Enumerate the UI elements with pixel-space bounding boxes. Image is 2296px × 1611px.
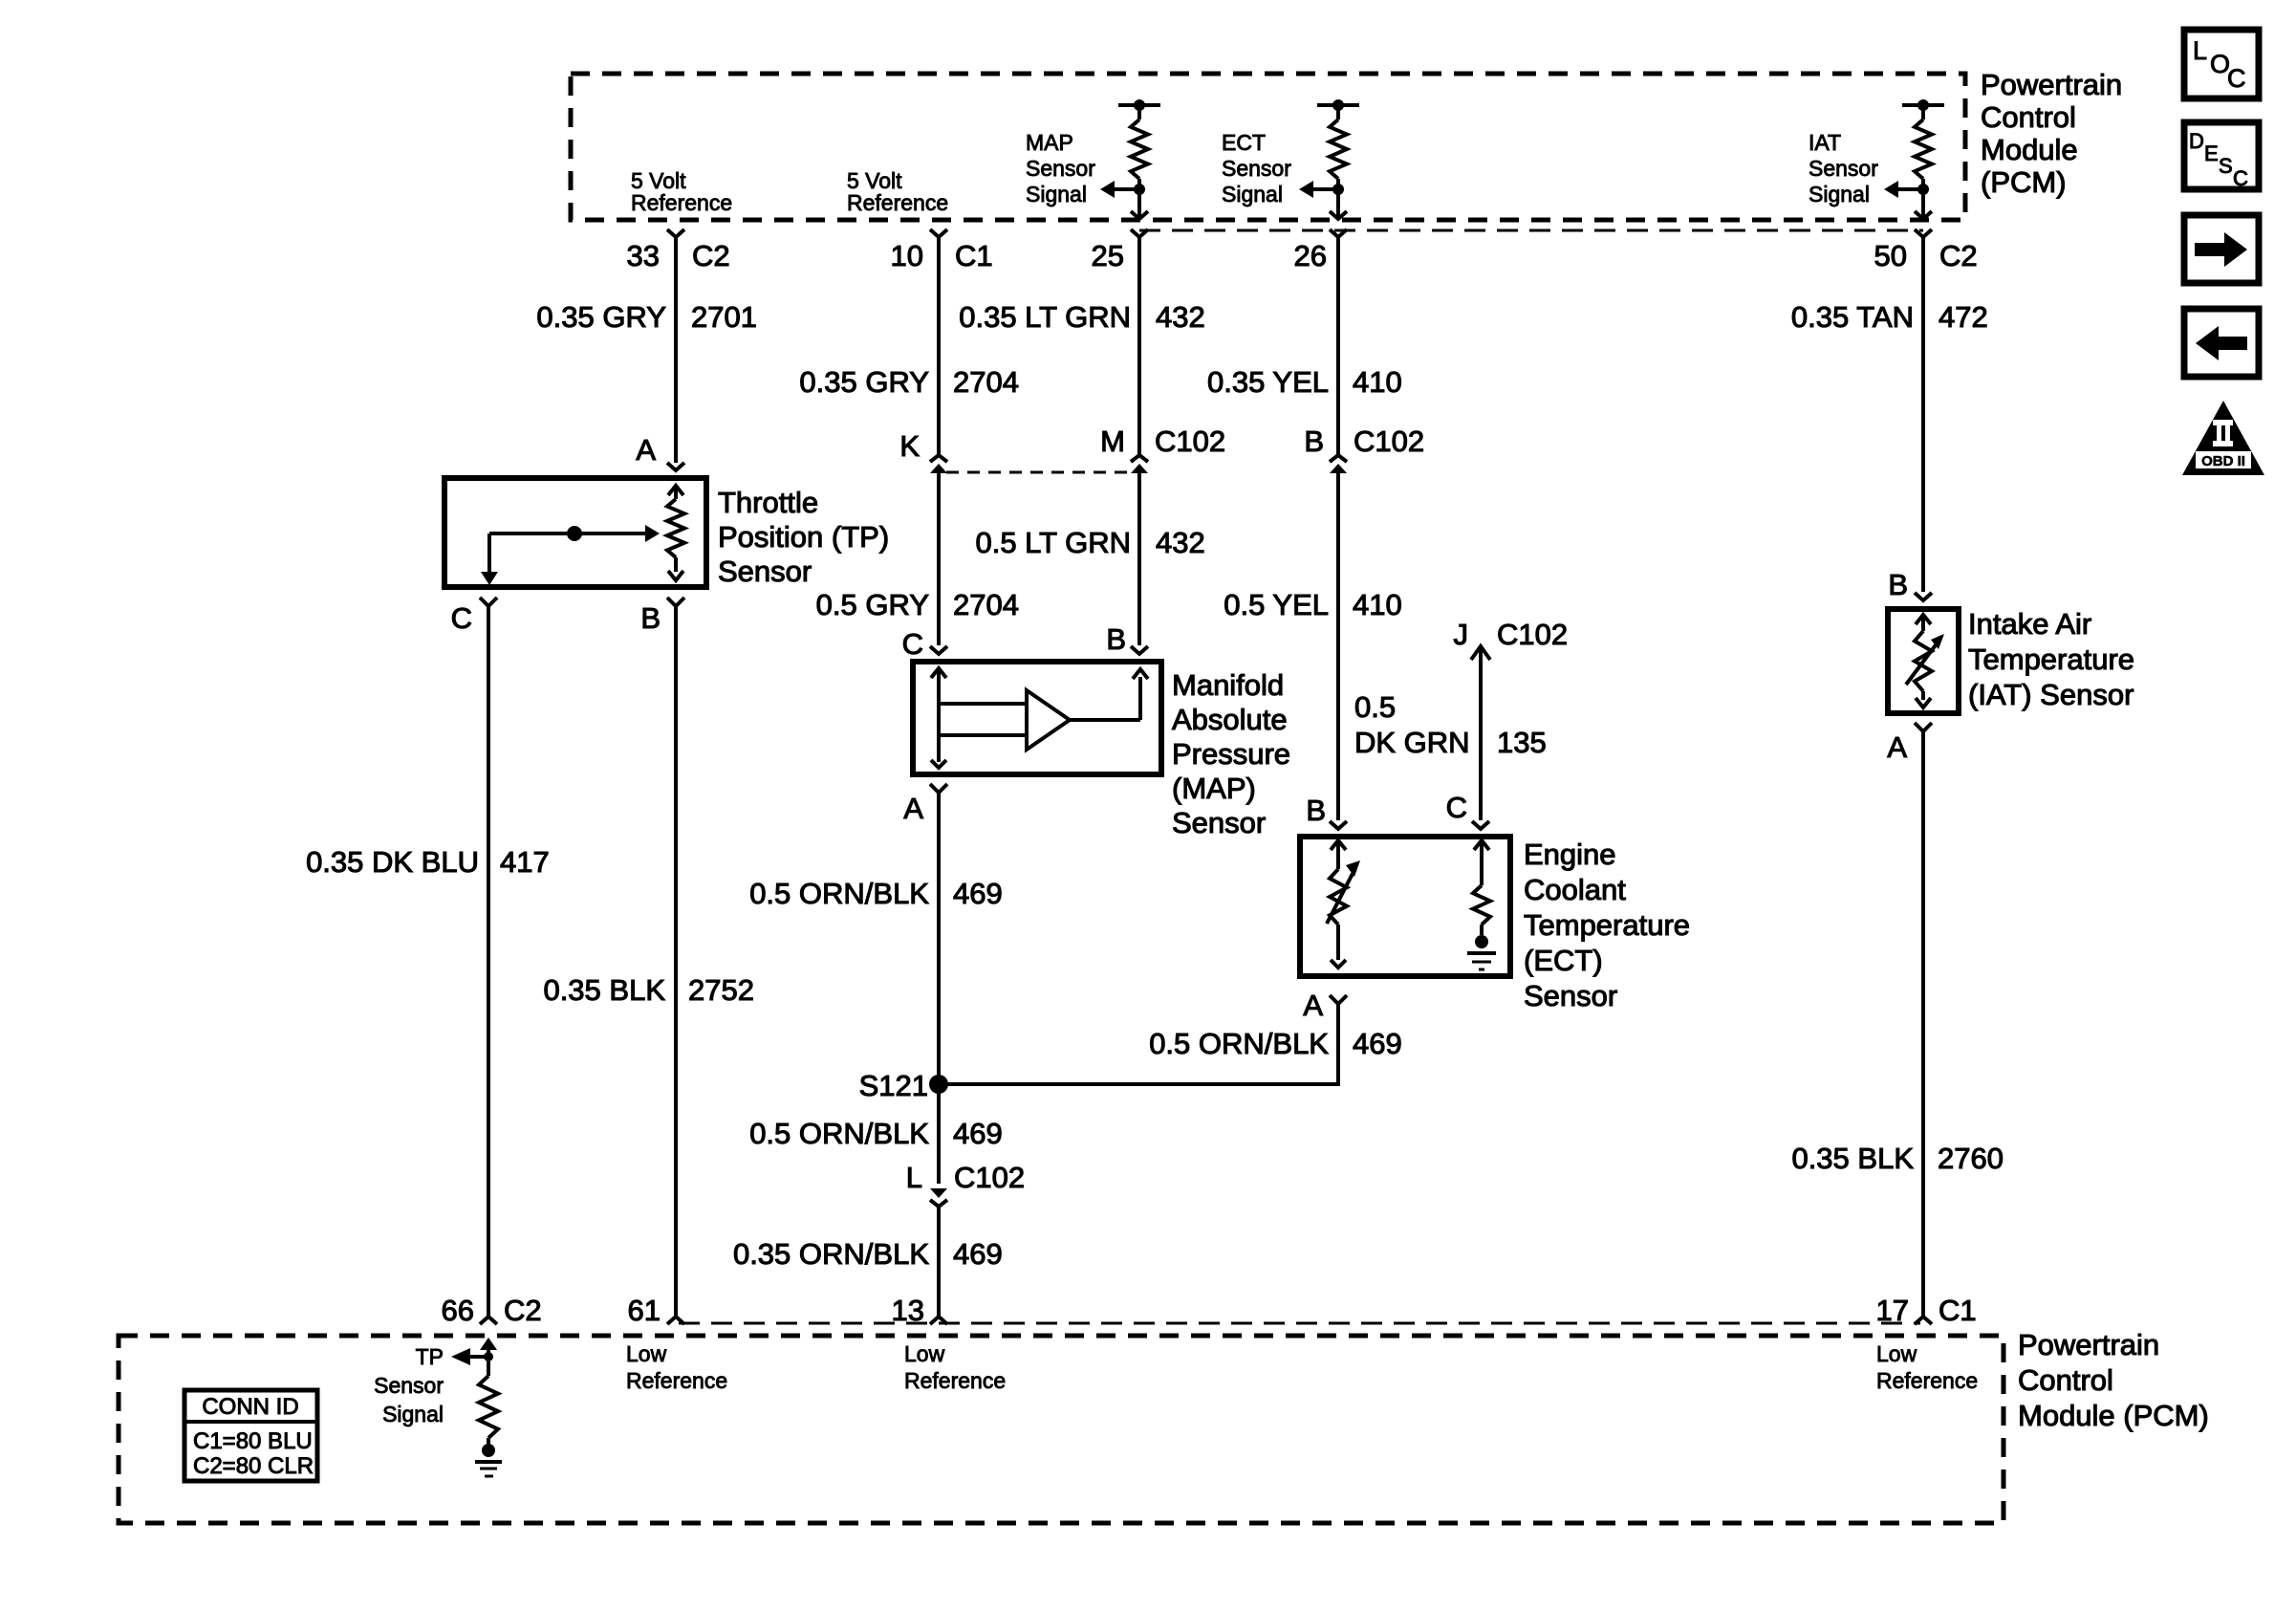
svg-text:D: D — [2189, 129, 2204, 153]
svg-text:472: 472 — [1939, 300, 1988, 334]
svg-text:C102: C102 — [1354, 425, 1424, 458]
svg-text:0.5 LT GRN: 0.5 LT GRN — [975, 526, 1131, 559]
svg-text:0.35 YEL: 0.35 YEL — [1207, 365, 1329, 399]
svg-text:Module (PCM): Module (PCM) — [2018, 1399, 2209, 1432]
svg-text:K: K — [899, 429, 920, 463]
svg-text:0.35 TAN: 0.35 TAN — [1791, 300, 1914, 334]
svg-text:Temperature: Temperature — [1524, 908, 1690, 942]
svg-text:Coolant: Coolant — [1524, 873, 1626, 906]
svg-text:C: C — [1446, 791, 1467, 824]
svg-text:Sensor: Sensor — [1172, 806, 1266, 839]
svg-text:C: C — [2233, 166, 2248, 190]
svg-text:Throttle: Throttle — [718, 486, 818, 519]
svg-text:Control: Control — [1981, 100, 2076, 134]
svg-text:2704: 2704 — [953, 365, 1019, 399]
svg-text:DK GRN: DK GRN — [1354, 726, 1470, 759]
svg-text:Reference: Reference — [1876, 1368, 1978, 1393]
svg-text:0.35 LT GRN: 0.35 LT GRN — [959, 300, 1131, 334]
svg-text:Sensor: Sensor — [1222, 156, 1291, 181]
svg-text:A: A — [636, 433, 656, 467]
svg-text:66: 66 — [442, 1294, 474, 1327]
svg-text:B: B — [1888, 568, 1908, 601]
svg-text:417: 417 — [500, 845, 550, 879]
svg-text:Low: Low — [1876, 1341, 1917, 1366]
svg-text:Manifold: Manifold — [1172, 668, 1284, 702]
svg-text:C: C — [902, 627, 923, 661]
svg-text:B: B — [1306, 794, 1326, 827]
svg-text:C2: C2 — [504, 1294, 542, 1327]
svg-text:Pressure: Pressure — [1172, 737, 1290, 771]
svg-text:Sensor: Sensor — [374, 1373, 444, 1398]
svg-text:Temperature: Temperature — [1968, 642, 2134, 676]
svg-text:C102: C102 — [1155, 425, 1225, 458]
svg-text:A: A — [903, 792, 923, 825]
svg-text:Signal: Signal — [1222, 182, 1283, 207]
svg-text:Reference: Reference — [847, 190, 948, 215]
svg-text:C2=80 CLR: C2=80 CLR — [193, 1453, 314, 1479]
svg-text:469: 469 — [953, 1117, 1003, 1150]
svg-text:C1: C1 — [1939, 1294, 1977, 1327]
svg-text:33: 33 — [627, 239, 660, 272]
svg-text:Reference: Reference — [626, 1368, 727, 1393]
svg-text:(IAT) Sensor: (IAT) Sensor — [1968, 678, 2134, 711]
svg-text:(PCM): (PCM) — [1981, 165, 2067, 199]
svg-text:0.35 BLK: 0.35 BLK — [543, 973, 665, 1007]
svg-text:B: B — [640, 601, 661, 635]
svg-text:C102: C102 — [954, 1161, 1025, 1194]
svg-text:432: 432 — [1156, 526, 1205, 559]
svg-text:Sensor: Sensor — [718, 555, 812, 588]
svg-text:A: A — [1303, 989, 1323, 1022]
svg-text:Low: Low — [904, 1341, 945, 1366]
svg-text:2701: 2701 — [691, 300, 757, 334]
svg-text:A: A — [1887, 730, 1907, 764]
svg-text:Module: Module — [1981, 133, 2078, 166]
svg-text:CONN ID: CONN ID — [202, 1394, 298, 1420]
svg-text:TP: TP — [416, 1344, 444, 1369]
svg-text:S121: S121 — [859, 1069, 928, 1102]
svg-text:C: C — [451, 601, 472, 635]
svg-text:IAT: IAT — [1809, 130, 1841, 155]
svg-text:135: 135 — [1497, 726, 1547, 759]
svg-text:Reference: Reference — [631, 190, 732, 215]
svg-text:C1: C1 — [955, 239, 993, 272]
svg-text:410: 410 — [1353, 365, 1402, 399]
svg-text:S: S — [2219, 154, 2233, 178]
svg-text:10: 10 — [891, 239, 923, 272]
svg-text:C1=80 BLU: C1=80 BLU — [193, 1428, 313, 1454]
svg-text:Signal: Signal — [1026, 182, 1087, 207]
svg-text:0.35 GRY: 0.35 GRY — [536, 300, 666, 334]
svg-text:Low: Low — [626, 1341, 667, 1366]
svg-text:Sensor: Sensor — [1809, 156, 1878, 181]
svg-text:0.5 ORN/BLK: 0.5 ORN/BLK — [749, 1117, 929, 1150]
svg-text:Sensor: Sensor — [1026, 156, 1095, 181]
svg-text:Engine: Engine — [1524, 838, 1616, 871]
svg-text:B: B — [1304, 425, 1324, 458]
svg-text:2704: 2704 — [953, 588, 1019, 621]
svg-text:(ECT): (ECT) — [1524, 944, 1603, 977]
svg-text:0.5 ORN/BLK: 0.5 ORN/BLK — [749, 877, 929, 910]
svg-text:C2: C2 — [1939, 239, 1978, 272]
svg-text:26: 26 — [1294, 239, 1327, 272]
svg-text:Signal: Signal — [382, 1402, 444, 1426]
svg-text:469: 469 — [953, 877, 1003, 910]
svg-text:Position (TP): Position (TP) — [718, 520, 889, 554]
svg-text:61: 61 — [628, 1294, 661, 1327]
svg-text:Powertrain: Powertrain — [1981, 68, 2122, 101]
svg-text:ECT: ECT — [1222, 130, 1266, 155]
svg-text:(MAP): (MAP) — [1172, 772, 1256, 805]
svg-text:13: 13 — [892, 1294, 924, 1327]
svg-text:0.5 ORN/BLK: 0.5 ORN/BLK — [1149, 1027, 1329, 1060]
svg-text:410: 410 — [1353, 588, 1402, 621]
svg-text:2752: 2752 — [688, 973, 754, 1007]
svg-text:469: 469 — [953, 1237, 1003, 1271]
svg-text:C2: C2 — [692, 239, 730, 272]
svg-text:Control: Control — [2018, 1363, 2113, 1397]
svg-text:M: M — [1100, 425, 1125, 458]
svg-text:469: 469 — [1353, 1027, 1402, 1060]
svg-text:E: E — [2204, 142, 2219, 165]
svg-text:Signal: Signal — [1809, 182, 1870, 207]
svg-text:0.5 YEL: 0.5 YEL — [1224, 588, 1329, 621]
svg-text:C: C — [2227, 64, 2246, 93]
svg-text:0.35 DK BLU: 0.35 DK BLU — [306, 845, 479, 879]
svg-text:2760: 2760 — [1938, 1142, 2004, 1175]
svg-text:Reference: Reference — [904, 1368, 1006, 1393]
svg-text:0.5: 0.5 — [1354, 690, 1396, 724]
svg-text:B: B — [1106, 622, 1126, 656]
svg-text:50: 50 — [1874, 239, 1907, 272]
svg-text:0.35 GRY: 0.35 GRY — [799, 365, 929, 399]
svg-text:0.5 GRY: 0.5 GRY — [816, 588, 929, 621]
svg-text:C102: C102 — [1497, 618, 1568, 651]
svg-text:J: J — [1454, 618, 1469, 651]
svg-text:25: 25 — [1092, 239, 1124, 272]
svg-text:MAP: MAP — [1026, 130, 1073, 155]
svg-text:0.35 BLK: 0.35 BLK — [1791, 1142, 1914, 1175]
svg-text:17: 17 — [1876, 1294, 1909, 1327]
svg-text:Powertrain: Powertrain — [2018, 1328, 2159, 1361]
svg-text:L: L — [906, 1161, 922, 1194]
svg-text:Intake Air: Intake Air — [1968, 607, 2091, 641]
svg-text:Absolute: Absolute — [1172, 703, 1288, 736]
svg-text:0.35 ORN/BLK: 0.35 ORN/BLK — [733, 1237, 929, 1271]
svg-text:432: 432 — [1156, 300, 1205, 334]
svg-text:Sensor: Sensor — [1524, 979, 1617, 1012]
svg-text:L: L — [2193, 36, 2207, 65]
svg-text:OBD II: OBD II — [2201, 453, 2245, 469]
